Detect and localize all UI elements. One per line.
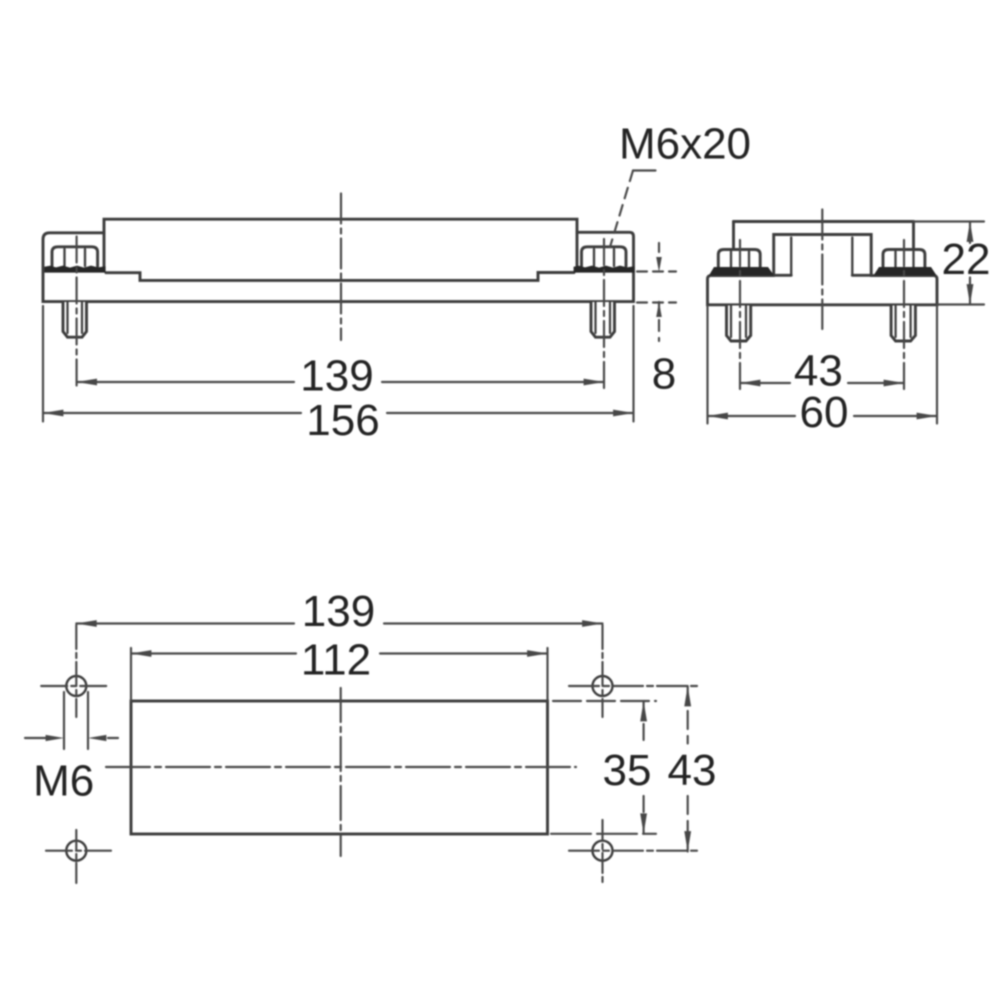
front view base top step line: [106, 273, 574, 281]
svg-text:35: 35: [603, 746, 652, 795]
side view hump: [774, 235, 872, 276]
front view flange outline: [43, 232, 634, 301]
dimension M6 bottom: [25, 692, 118, 749]
bolt B3 centerline: [739, 240, 741, 390]
bolt B3 stud: [727, 306, 751, 342]
svg-text:139: 139: [302, 587, 375, 636]
bolt B4 hex head: [883, 250, 925, 269]
svg-text:156: 156: [306, 396, 379, 445]
bolt B2 stud: [591, 302, 615, 337]
dimension 139 front: [77, 379, 604, 386]
leader M6x20: [610, 171, 656, 248]
front view body (hood): [104, 219, 577, 266]
hole H4 bottom-right: [593, 841, 613, 861]
dimension 8 front: [637, 243, 676, 341]
dimension 22 side: [914, 222, 985, 305]
svg-text:139: 139: [300, 351, 373, 400]
side view base plate: [708, 276, 938, 305]
bolt B4 centerline: [903, 240, 905, 390]
bolt B1 hex head: [52, 247, 98, 266]
bolt B3 hex head: [718, 250, 760, 269]
hole H3 centerlines: [46, 830, 111, 883]
dimension 60 side: [708, 306, 938, 424]
svg-text:8: 8: [652, 350, 676, 399]
hole H2 centerlines: [569, 625, 697, 717]
dimension 156 front: [43, 306, 634, 422]
bottom view vertical centerline: [340, 688, 342, 856]
bolt B1 lock washer: [44, 266, 105, 273]
bolt B4 stud: [891, 306, 915, 342]
bolt B3 lock washer: [709, 267, 774, 275]
hole H1 top-left: [66, 676, 86, 696]
bottom view cutout rectangle: [131, 701, 548, 834]
svg-text:22: 22: [942, 235, 991, 284]
dimension 43 bottom: [684, 686, 691, 852]
bolt B2 hex head: [582, 247, 627, 266]
bottom view horizontal centerline: [106, 766, 576, 768]
bolt B2 centerline: [603, 239, 605, 390]
front view vertical centerline: [340, 194, 342, 341]
hole H3 bottom-left: [66, 841, 86, 861]
svg-text:112: 112: [301, 636, 371, 685]
side view body side edges: [734, 222, 914, 248]
bolt B4 lock washer: [874, 267, 937, 275]
hole H2 top-right: [593, 676, 613, 696]
svg-text:43: 43: [668, 746, 717, 795]
side view vertical centerline: [821, 210, 823, 330]
svg-text:M6: M6: [33, 756, 94, 805]
bolt B1 centerline: [76, 237, 78, 391]
bolt B2 lock washer: [574, 266, 635, 273]
side view top line: [734, 220, 914, 223]
dimension 139 bottom: [76, 620, 602, 627]
svg-text:60: 60: [800, 388, 849, 437]
dimension 112 bottom: [131, 648, 548, 701]
bolt B1 stud: [63, 302, 87, 337]
hole H4 centerlines: [569, 820, 697, 883]
svg-text:M6x20: M6x20: [619, 120, 751, 169]
hole H1 centerlines: [41, 625, 108, 717]
dimension 35 bottom: [551, 701, 656, 834]
dimension 43 side: [740, 380, 904, 387]
